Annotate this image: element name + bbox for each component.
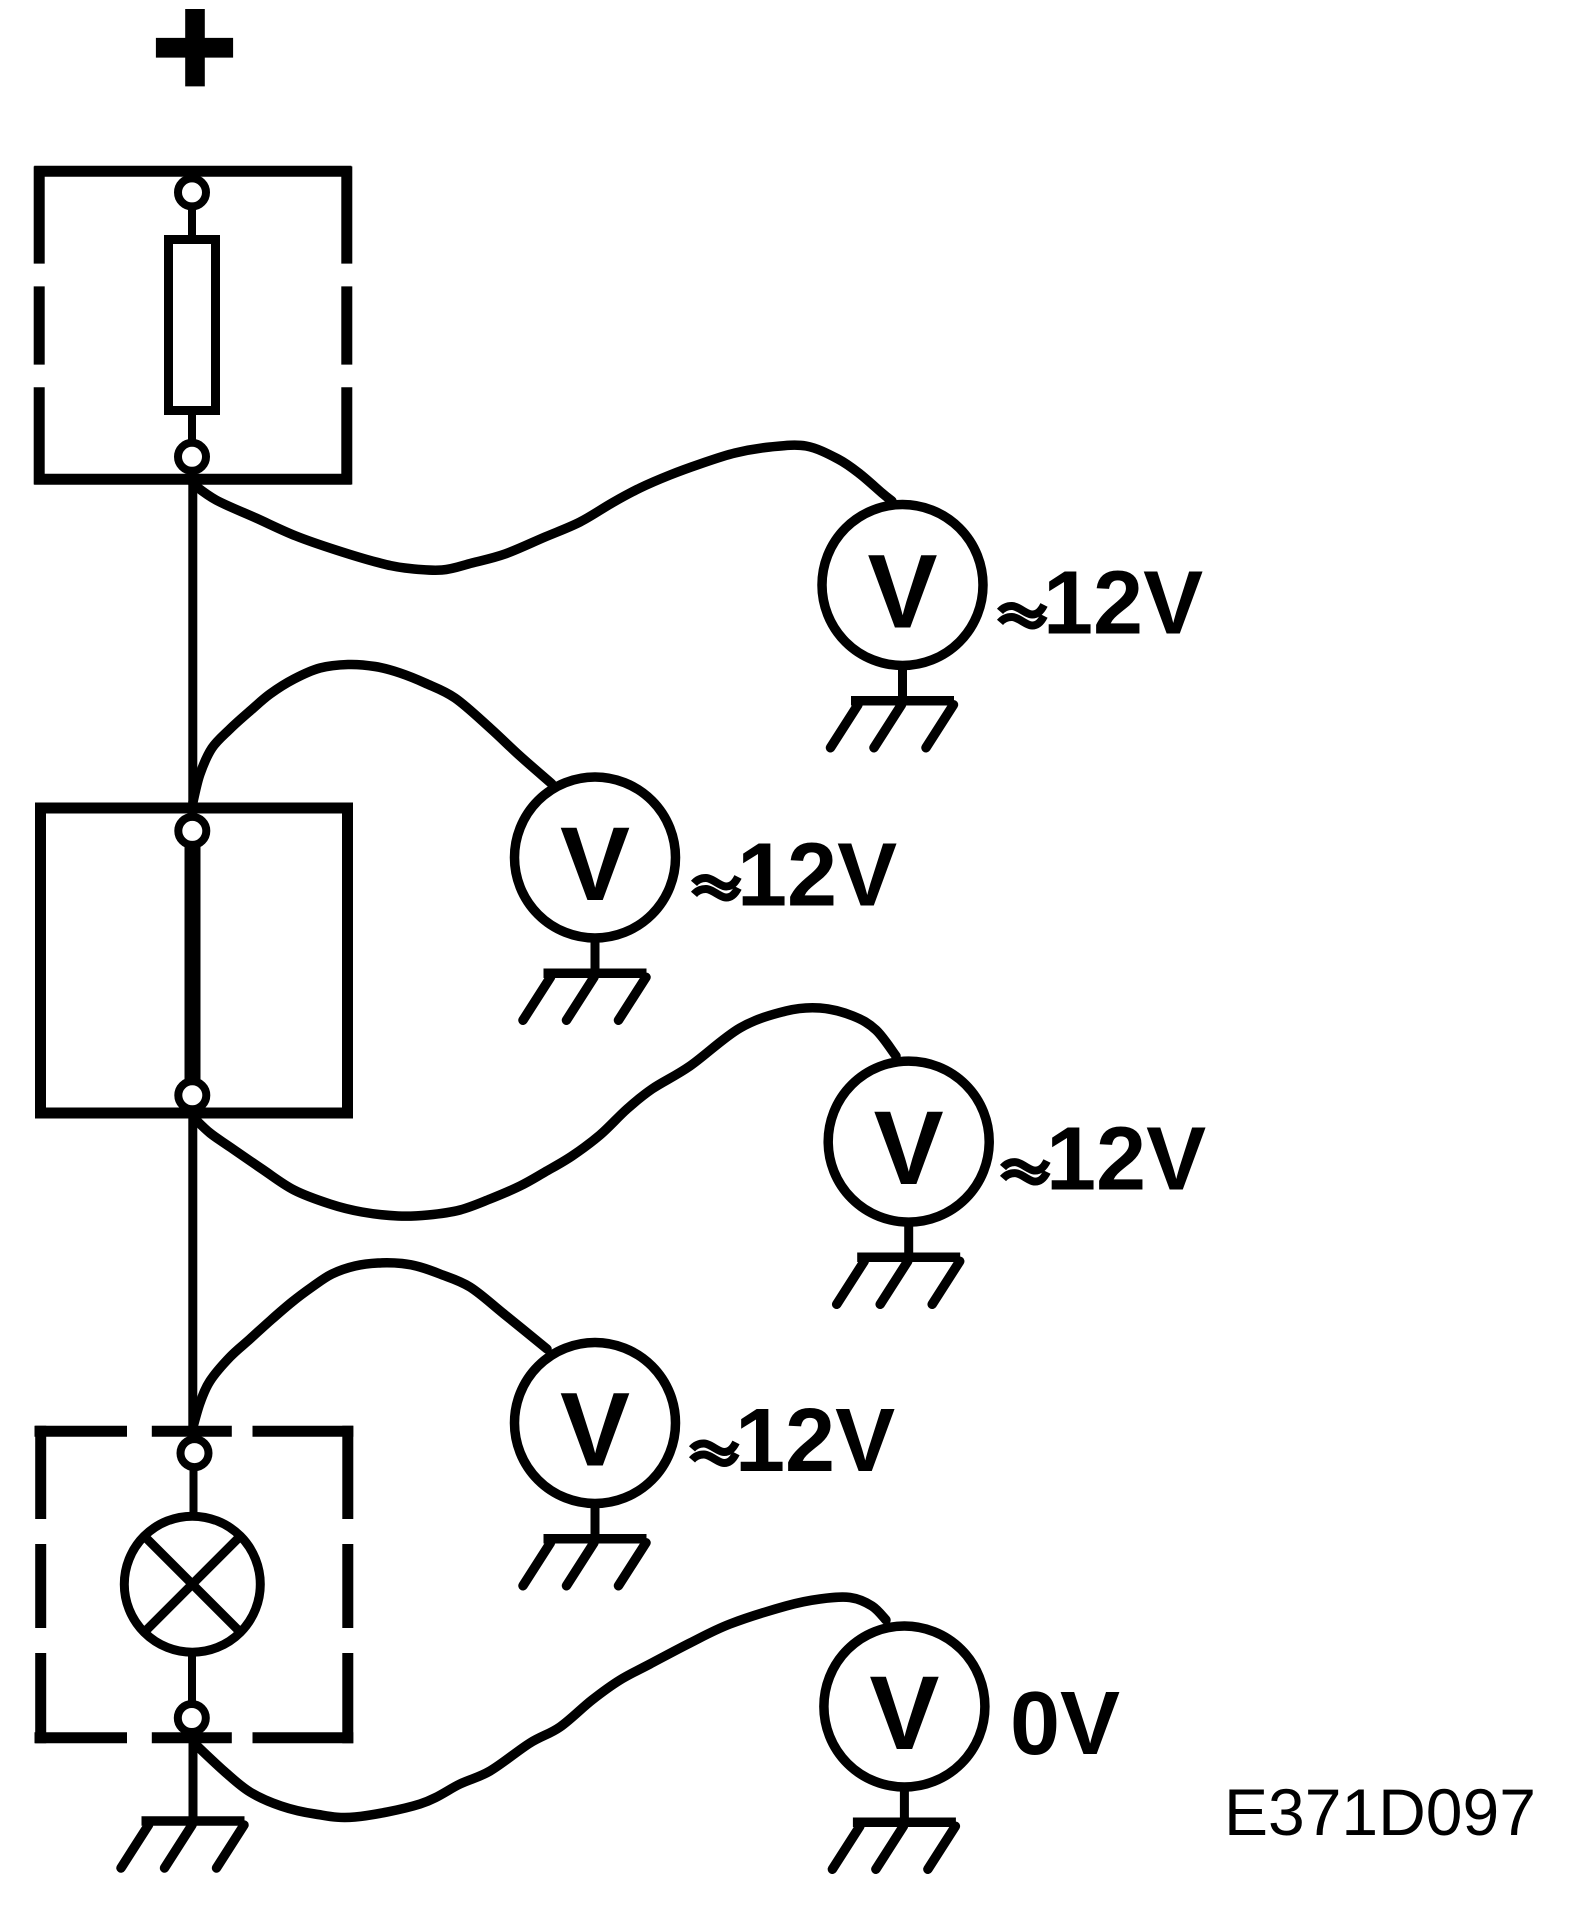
svg-text:E371D097: E371D097 (1224, 1775, 1536, 1849)
svg-text:V: V (874, 1090, 944, 1207)
svg-text:V: V (869, 1655, 939, 1772)
svg-text:12V: 12V (1043, 554, 1203, 654)
svg-text:12V: 12V (1046, 1110, 1206, 1210)
svg-text:V: V (560, 806, 630, 923)
svg-text:0V: 0V (1010, 1674, 1120, 1774)
svg-text:12V: 12V (735, 1391, 895, 1491)
svg-text:12V: 12V (737, 826, 897, 926)
svg-text:V: V (867, 534, 937, 651)
svg-text:V: V (560, 1372, 630, 1489)
